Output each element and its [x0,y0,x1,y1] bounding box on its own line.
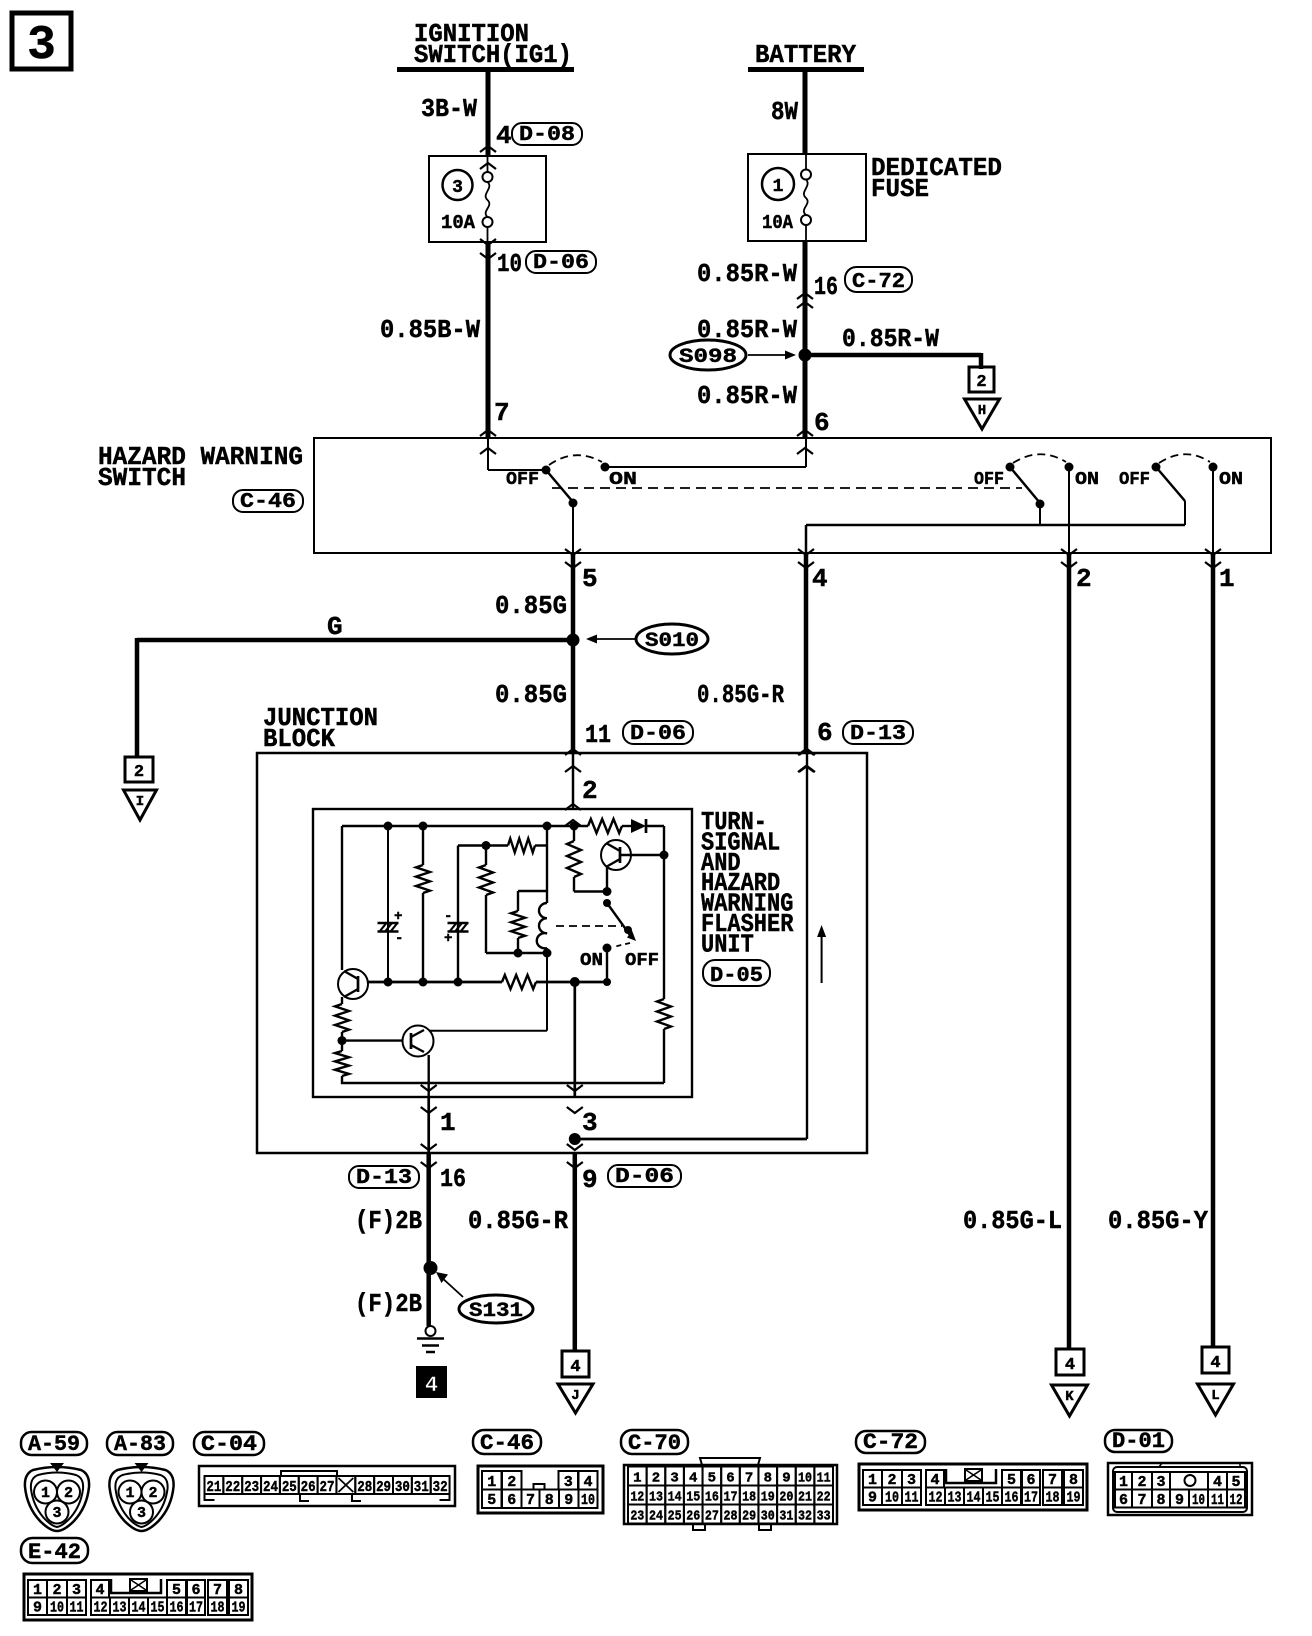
svg-text:ON: ON [1219,470,1243,490]
svg-text:18: 18 [742,1490,756,1506]
svg-text:BATTERY: BATTERY [755,40,856,70]
svg-text:BLOCK: BLOCK [263,724,335,754]
svg-text:3: 3 [907,1472,916,1489]
svg-text:ON: ON [580,951,603,971]
svg-text:2: 2 [64,1485,73,1502]
svg-text:12: 12 [94,1600,108,1617]
svg-text:11: 11 [817,1471,831,1487]
svg-text:10A: 10A [762,212,794,234]
svg-text:2: 2 [887,1472,896,1489]
svg-text:3: 3 [52,1505,61,1522]
svg-text:I: I [136,794,144,810]
svg-text:0.85R-W: 0.85R-W [842,324,939,354]
svg-text:0.85G-Y: 0.85G-Y [1108,1206,1208,1236]
svg-text:1: 1 [1119,1474,1128,1491]
svg-text:20: 20 [779,1490,793,1506]
svg-text:OFF: OFF [506,470,539,490]
svg-text:11: 11 [70,1600,84,1617]
svg-text:29: 29 [742,1509,756,1525]
svg-text:27: 27 [320,1479,335,1496]
svg-text:3: 3 [564,1474,573,1491]
svg-text:9: 9 [782,1471,790,1487]
svg-text:12: 12 [630,1490,644,1506]
svg-text:31: 31 [414,1479,429,1496]
svg-text:9: 9 [582,1165,598,1195]
svg-text:(F)2B: (F)2B [355,1206,422,1236]
svg-text:2: 2 [52,1582,61,1599]
svg-text:1: 1 [868,1472,877,1489]
svg-text:4: 4 [1210,1354,1220,1373]
svg-text:8: 8 [764,1471,772,1487]
svg-text:22: 22 [817,1490,831,1506]
svg-text:9: 9 [564,1492,573,1509]
svg-text:6: 6 [507,1492,516,1509]
svg-text:23: 23 [630,1509,644,1525]
svg-text:7: 7 [494,398,510,428]
svg-text:C-46: C-46 [480,1431,534,1456]
svg-text:4: 4 [689,1471,697,1487]
svg-text:C-72: C-72 [852,271,905,294]
svg-text:32: 32 [798,1509,812,1525]
svg-text:16: 16 [1005,1490,1019,1507]
svg-text:1: 1 [440,1108,456,1138]
svg-text:14: 14 [132,1600,146,1617]
svg-text:D-05: D-05 [710,965,763,988]
svg-text:1: 1 [487,1474,496,1491]
svg-text:D-13: D-13 [850,723,906,746]
svg-text:ON: ON [1075,470,1099,490]
svg-text:H: H [978,403,986,419]
svg-text:C-70: C-70 [628,1431,681,1456]
svg-text:16: 16 [705,1490,719,1506]
svg-text:0.85B-W: 0.85B-W [380,315,480,345]
svg-text:15: 15 [986,1490,1000,1507]
svg-text:4: 4 [930,1472,939,1489]
svg-text:A-83: A-83 [114,1432,166,1457]
svg-text:24: 24 [649,1509,663,1525]
svg-text:OFF: OFF [974,470,1004,490]
svg-text:18: 18 [1046,1490,1060,1507]
svg-text:-: - [395,931,403,947]
svg-text:4: 4 [570,1358,580,1377]
svg-text:3: 3 [72,1582,81,1599]
svg-text:30: 30 [761,1509,775,1525]
svg-text:(F)2B: (F)2B [355,1289,422,1319]
svg-text:6: 6 [817,718,833,748]
svg-text:C-04: C-04 [201,1432,257,1457]
svg-text:10: 10 [50,1600,64,1617]
svg-text:8W: 8W [771,97,798,127]
svg-text:D-06: D-06 [630,723,686,746]
svg-text:OFF: OFF [625,951,659,971]
svg-text:6: 6 [1026,1472,1035,1489]
svg-text:8: 8 [545,1492,554,1509]
svg-text:S131: S131 [469,1300,523,1323]
svg-text:8: 8 [1069,1472,1078,1489]
svg-text:28: 28 [357,1479,372,1496]
svg-text:SWITCH: SWITCH [98,463,186,493]
svg-text:17: 17 [1024,1490,1038,1507]
svg-text:6: 6 [1119,1492,1128,1509]
svg-text:10: 10 [497,249,522,279]
svg-text:J: J [571,1388,579,1404]
svg-text:3: 3 [1156,1474,1165,1491]
svg-text:6: 6 [814,408,830,438]
svg-text:16: 16 [814,272,838,302]
svg-text:10: 10 [798,1471,812,1487]
svg-text:D-01: D-01 [1112,1429,1165,1454]
svg-text:13: 13 [948,1490,962,1507]
svg-text:16: 16 [170,1600,184,1617]
svg-text:7: 7 [526,1492,535,1509]
svg-text:10: 10 [1192,1492,1205,1509]
svg-text:14: 14 [967,1490,981,1507]
svg-text:7: 7 [745,1471,753,1487]
svg-text:7: 7 [1048,1472,1057,1489]
svg-text:2: 2 [134,763,144,782]
svg-text:30: 30 [395,1479,410,1496]
svg-text:+: + [444,931,452,947]
svg-text:23: 23 [244,1479,259,1496]
svg-text:D-06: D-06 [615,1166,674,1189]
svg-text:17: 17 [724,1490,738,1506]
svg-text:12: 12 [1230,1492,1243,1509]
svg-text:1: 1 [41,1485,50,1502]
svg-text:3: 3 [452,178,463,198]
svg-text:5: 5 [172,1582,181,1599]
svg-text:4: 4 [583,1474,592,1491]
svg-text:2: 2 [507,1474,516,1491]
svg-text:+: + [394,909,402,925]
svg-text:0.85G-R: 0.85G-R [697,680,784,710]
svg-text:27: 27 [705,1509,719,1525]
svg-text:0.85G: 0.85G [495,591,567,621]
svg-text:25: 25 [668,1509,682,1525]
svg-text:2: 2 [582,776,598,806]
svg-text:16: 16 [440,1164,466,1194]
svg-text:1: 1 [33,1582,42,1599]
svg-text:1: 1 [1219,564,1235,594]
svg-text:UNIT: UNIT [701,929,754,959]
svg-text:26: 26 [301,1479,316,1496]
svg-text:9: 9 [1175,1492,1184,1509]
svg-text:E-42: E-42 [28,1540,81,1565]
svg-text:7: 7 [1137,1492,1146,1509]
svg-text:OFF: OFF [1119,470,1150,490]
svg-text:25: 25 [282,1479,297,1496]
svg-text:D-08: D-08 [519,124,575,147]
svg-text:15: 15 [151,1600,165,1617]
svg-text:7: 7 [213,1582,222,1599]
svg-text:11: 11 [905,1490,919,1507]
svg-text:4: 4 [496,121,512,151]
svg-text:5: 5 [1231,1474,1240,1491]
svg-text:D-13: D-13 [356,1167,412,1190]
svg-text:3: 3 [582,1108,598,1138]
svg-text:8: 8 [234,1582,243,1599]
svg-text:33: 33 [817,1509,831,1525]
svg-text:17: 17 [189,1600,203,1617]
svg-text:10A: 10A [441,212,476,234]
svg-text:13: 13 [649,1490,663,1506]
svg-text:2: 2 [148,1485,157,1502]
svg-text:19: 19 [1067,1490,1081,1507]
svg-text:ON: ON [609,470,637,490]
svg-text:32: 32 [433,1479,448,1496]
svg-text:12: 12 [929,1490,943,1507]
svg-text:0.85R-W: 0.85R-W [697,381,797,411]
svg-text:5: 5 [582,564,598,594]
svg-text:1: 1 [633,1471,641,1487]
svg-text:6: 6 [191,1582,200,1599]
svg-text:19: 19 [232,1600,246,1617]
svg-text:6: 6 [726,1471,734,1487]
svg-text:9: 9 [868,1490,877,1507]
svg-text:4: 4 [95,1582,104,1599]
svg-text:C-72: C-72 [863,1430,918,1455]
svg-text:1: 1 [773,177,784,197]
svg-text:3: 3 [27,19,56,73]
svg-text:SWITCH(IG1): SWITCH(IG1) [414,40,572,70]
svg-text:11: 11 [585,720,611,750]
svg-text:5: 5 [487,1492,496,1509]
svg-text:S010: S010 [645,630,699,653]
svg-text:21: 21 [206,1479,221,1496]
svg-text:9: 9 [33,1600,42,1617]
svg-text:3: 3 [137,1505,146,1522]
svg-text:19: 19 [761,1490,775,1506]
svg-text:2: 2 [1076,564,1092,594]
svg-text:4: 4 [1213,1474,1222,1491]
svg-text:L: L [1211,1388,1219,1404]
svg-text:5: 5 [1007,1472,1016,1489]
svg-text:0.85G-L: 0.85G-L [963,1206,1062,1236]
svg-text:D-06: D-06 [533,252,589,275]
svg-text:A-59: A-59 [28,1432,80,1457]
svg-text:FUSE: FUSE [871,174,929,204]
svg-text:29: 29 [376,1479,391,1496]
svg-text:24: 24 [263,1479,278,1496]
svg-text:26: 26 [686,1509,700,1525]
svg-text:2: 2 [1137,1474,1146,1491]
svg-text:10: 10 [885,1490,899,1507]
svg-text:11: 11 [1211,1492,1224,1509]
svg-text:-: - [444,909,452,925]
svg-text:0.85R-W: 0.85R-W [697,259,797,289]
svg-text:5: 5 [708,1471,716,1487]
svg-text:21: 21 [798,1490,812,1506]
svg-text:1: 1 [125,1485,134,1502]
svg-text:2: 2 [652,1471,660,1487]
svg-text:S098: S098 [679,346,737,369]
svg-text:13: 13 [113,1600,127,1617]
svg-text:15: 15 [686,1490,700,1506]
svg-text:8: 8 [1156,1492,1165,1509]
svg-text:0.85G-R: 0.85G-R [468,1206,568,1236]
svg-text:C-46: C-46 [240,491,296,514]
svg-text:0.85G: 0.85G [495,680,567,710]
svg-text:3: 3 [670,1471,678,1487]
svg-text:4: 4 [812,564,828,594]
svg-text:3B-W: 3B-W [421,94,477,124]
svg-text:31: 31 [779,1509,793,1525]
svg-text:4: 4 [1065,1356,1075,1375]
svg-text:22: 22 [225,1479,240,1496]
svg-text:28: 28 [724,1509,738,1525]
svg-text:18: 18 [211,1600,225,1617]
svg-text:4: 4 [425,1373,438,1398]
svg-text:G: G [327,612,343,642]
svg-text:2: 2 [976,373,986,392]
svg-text:14: 14 [668,1490,682,1506]
svg-text:10: 10 [581,1492,595,1509]
svg-text:K: K [1065,1389,1074,1405]
